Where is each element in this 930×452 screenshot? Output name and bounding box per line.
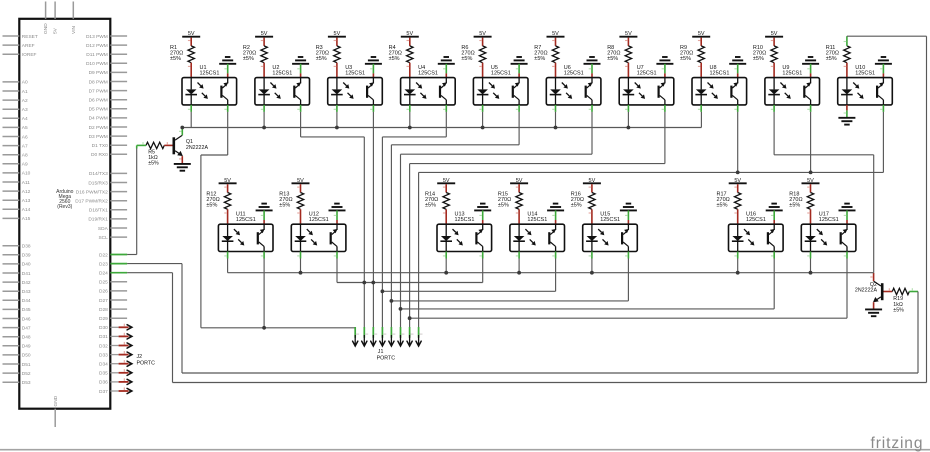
- wire net PC0: to J1 pin 1 (y=327.8): [201, 327, 355, 329]
- svg-text:125CS1: 125CS1: [710, 70, 730, 76]
- svg-text:D29: D29: [99, 316, 108, 322]
- svg-text:(Rev3): (Rev3): [57, 204, 72, 210]
- svg-text:125CS1: 125CS1: [491, 70, 511, 76]
- U1 pin legs (bottom): [190, 105, 192, 112]
- svg-text:A7: A7: [22, 143, 28, 149]
- svg-text:IOREF: IOREF: [22, 52, 37, 58]
- phototransistor inside U14: [548, 232, 550, 244]
- svg-text:D17 PWM/RX2: D17 PWM/RX2: [75, 199, 108, 205]
- pin 5V (top): [54, 2, 56, 19]
- wire 5V to R7: [555, 38, 557, 46]
- ground (U12 collector): [329, 209, 346, 211]
- svg-text:±5%: ±5%: [717, 203, 728, 209]
- U11 pin legs (bottom): [227, 252, 229, 259]
- svg-text:A12: A12: [22, 189, 31, 195]
- wire R11 to U10 anode (pin 1): [846, 63, 848, 78]
- wire 5V to R2: [263, 38, 265, 46]
- pin VIN (top): [72, 2, 74, 19]
- svg-text:D31: D31: [99, 334, 108, 340]
- J1 pin 4: [381, 327, 383, 338]
- junction U14 cathode on row-2 bus: [517, 271, 521, 275]
- wire U13 cathode drop: [445, 259, 447, 273]
- svg-text:D49: D49: [22, 344, 31, 350]
- svg-text:A5: A5: [22, 125, 28, 131]
- J2 pin 8 wire (D37): [119, 390, 129, 392]
- wire 5V to R13: [300, 184, 302, 192]
- svg-text:D43: D43: [22, 289, 31, 295]
- wire Q2 base to R19: [884, 291, 893, 293]
- svg-text:D48: D48: [22, 335, 31, 341]
- wire U3 emitter straight down to J1 pin 3: [372, 112, 374, 327]
- wire U11 cathode drop (bus start corner): [227, 259, 229, 273]
- resistor R3 270Ω: [334, 46, 340, 63]
- wire D23 to R19 / Q2 base (down right edge route): [127, 263, 182, 265]
- svg-text:±5%: ±5%: [498, 203, 509, 209]
- LED inside U8: [700, 78, 702, 90]
- junction U2 cathode on bus: [262, 126, 266, 130]
- J1 pin 5: [390, 327, 392, 338]
- wire D22 to R5 (net PA-drive 1): [137, 144, 146, 146]
- pin D51: [3, 363, 20, 365]
- wire bus: Q2 collector / U9 + U11-U17 LED cathodes (y=272.7): [228, 272, 874, 274]
- U12 pin legs (bottom): [300, 252, 302, 259]
- svg-text:125CS1: 125CS1: [564, 70, 584, 76]
- svg-text:125CS1: 125CS1: [637, 70, 657, 76]
- wire U4 cathode drop: [409, 112, 411, 128]
- wire R13 to U12 anode (pin 1): [300, 209, 302, 224]
- resistor R4 270Ω: [407, 46, 413, 63]
- pin AREF: [3, 44, 20, 46]
- ground (Q1 emitter): [174, 163, 191, 165]
- wire U15 emitter to J1 pin 5 (y=300.9): [627, 259, 629, 301]
- wire U12 cathode drop: [300, 259, 302, 273]
- phototransistor inside U16: [767, 232, 769, 244]
- pin A2: [3, 99, 20, 101]
- wire R15 to U14 anode (pin 1): [518, 209, 520, 224]
- svg-text:D42: D42: [22, 280, 31, 286]
- svg-text:±5%: ±5%: [148, 161, 159, 167]
- wire R1 to U1 anode (pin 1): [190, 63, 192, 78]
- svg-text:125CS1: 125CS1: [345, 70, 365, 76]
- svg-text:VIN: VIN: [71, 25, 77, 34]
- svg-text:5V: 5V: [53, 27, 59, 34]
- wire R16 to U15 anode (pin 1): [591, 209, 593, 224]
- svg-text:AREF: AREF: [22, 43, 35, 49]
- ground (U17 collector): [839, 209, 856, 211]
- U7 pin legs (bottom): [627, 105, 629, 112]
- svg-text:125CS1: 125CS1: [455, 217, 475, 223]
- wire 5V to R4: [409, 38, 411, 46]
- light arrows inside U13: [453, 229, 456, 232]
- U6 pin legs (bottom): [555, 105, 557, 112]
- junction Q1 collector on bus: [180, 126, 184, 130]
- svg-text:D11 PWM: D11 PWM: [86, 52, 108, 58]
- junction U12 cathode on row-2 bus: [299, 271, 303, 275]
- svg-text:D36: D36: [99, 380, 108, 386]
- phototransistor inside U13: [475, 232, 477, 244]
- svg-text:GND: GND: [53, 395, 59, 406]
- wire R5 to Q1 base: [164, 144, 172, 146]
- svg-text:SCL: SCL: [98, 235, 108, 241]
- svg-text:±5%: ±5%: [170, 56, 181, 62]
- wire R6 to U5 anode (pin 1): [482, 63, 484, 78]
- wire ground to U11 collector: [263, 210, 265, 220]
- junction U4 cathode on bus: [408, 126, 412, 130]
- svg-text:±5%: ±5%: [753, 56, 764, 62]
- svg-text:D25: D25: [99, 280, 108, 286]
- pin A6: [3, 136, 20, 138]
- pin A9: [3, 163, 20, 165]
- svg-text:±5%: ±5%: [279, 203, 290, 209]
- U2 pin legs (bottom): [263, 105, 265, 112]
- svg-text:125CS1: 125CS1: [272, 70, 292, 76]
- junction U3 cathode on bus: [335, 126, 339, 130]
- svg-text:fritzing: fritzing: [871, 435, 924, 452]
- svg-text:D23: D23: [99, 261, 108, 267]
- svg-text:D12 PWM: D12 PWM: [86, 43, 108, 49]
- LED inside U17: [810, 224, 812, 236]
- J1 pin 1: [354, 327, 356, 338]
- svg-text:A2: A2: [22, 98, 28, 104]
- wire U3 cathode drop: [336, 112, 338, 128]
- ground (U14 collector): [547, 209, 564, 211]
- Q2 collector leg: [874, 281, 881, 286]
- resistor R13 270Ω: [297, 193, 303, 210]
- wire U8 cathode drop (bus end): [700, 112, 702, 128]
- wire U2 emitter route to J1 pin 2: [300, 112, 302, 137]
- svg-text:D22: D22: [99, 252, 108, 258]
- wire 5V to R15: [518, 184, 520, 192]
- svg-text:D19/RX1: D19/RX1: [88, 217, 108, 223]
- svg-text:D52: D52: [22, 371, 31, 377]
- pin A10: [3, 172, 20, 174]
- J1 pin 7: [409, 327, 411, 338]
- U16 pin legs (bottom): [737, 252, 739, 259]
- svg-text:D53: D53: [22, 380, 31, 386]
- svg-text:D18/TX1: D18/TX1: [89, 208, 108, 214]
- LED inside U4: [409, 78, 411, 90]
- transistor Q1 2N2222A: [173, 137, 176, 154]
- wire R11 top to top-right rail: [846, 36, 848, 46]
- svg-text:A0: A0: [22, 80, 28, 86]
- phototransistor inside U2: [293, 86, 295, 98]
- junction U8 emitter: [736, 171, 740, 175]
- svg-text:±5%: ±5%: [534, 56, 545, 62]
- svg-text:D46: D46: [22, 316, 31, 322]
- wire U5 cathode drop: [482, 112, 484, 128]
- wire ground to U5 collector: [518, 64, 520, 74]
- wire R17 to U16 anode (pin 1): [737, 209, 739, 224]
- light arrows inside U3: [343, 83, 346, 86]
- svg-text:±5%: ±5%: [206, 203, 217, 209]
- light arrows inside U10: [853, 83, 856, 86]
- resistor R18 270Ω: [807, 193, 813, 210]
- Q1 collector leg: [175, 135, 182, 140]
- svg-text:±5%: ±5%: [425, 203, 436, 209]
- J2 pin 6 wire (D35): [119, 372, 129, 374]
- svg-text:A8: A8: [22, 153, 28, 159]
- pin RESET: [3, 35, 20, 37]
- U17 pin legs (bottom): [810, 252, 812, 259]
- wire U16 cathode drop: [737, 259, 739, 273]
- svg-text:125CS1: 125CS1: [600, 217, 620, 223]
- svg-text:D39: D39: [22, 253, 31, 259]
- phototransistor inside U5: [512, 86, 514, 98]
- svg-text:125CS1: 125CS1: [819, 217, 839, 223]
- svg-text:D41: D41: [22, 271, 31, 277]
- svg-text:±5%: ±5%: [680, 56, 691, 62]
- J2 pin 3 wire (D32): [119, 345, 129, 347]
- wire R2 to U2 anode (pin 1): [263, 63, 265, 78]
- pin D45: [3, 308, 20, 310]
- LED inside U15: [591, 224, 593, 236]
- pin D47: [3, 327, 20, 329]
- J1 pin 6: [400, 327, 402, 338]
- wire ground to U16 collector: [773, 210, 775, 220]
- resistor R11 270Ω: [844, 46, 850, 63]
- svg-text:D8 PWM: D8 PWM: [89, 79, 108, 85]
- svg-text:D35: D35: [99, 371, 108, 377]
- svg-text:J2: J2: [137, 354, 143, 360]
- svg-text:A15: A15: [22, 216, 31, 222]
- transistor Q2 2N2222A (mirrored): [881, 283, 884, 300]
- wire R19 to net of D23: [909, 291, 918, 293]
- pin A13: [3, 199, 20, 201]
- pin A5: [3, 126, 20, 128]
- resistor R2 270Ω: [261, 46, 267, 63]
- svg-text:D16 PWM/TX2: D16 PWM/TX2: [76, 189, 108, 195]
- wire 5V to R9: [700, 38, 702, 46]
- svg-text:D3 PWM: D3 PWM: [89, 134, 108, 140]
- wire ground to U15 collector: [627, 210, 629, 220]
- svg-text:D2 PWM: D2 PWM: [89, 125, 108, 131]
- junction on J1 pin3 vertical: [371, 281, 375, 285]
- wire 5V to R12: [227, 184, 229, 192]
- light arrows inside U5: [489, 83, 492, 86]
- svg-text:±5%: ±5%: [826, 56, 837, 62]
- resistor R12 270Ω: [224, 193, 230, 210]
- svg-text:±5%: ±5%: [389, 56, 400, 62]
- wire ground to U13 collector: [482, 210, 484, 220]
- junction U16 cathode on row-2 bus: [736, 271, 740, 275]
- pin A1: [3, 90, 20, 92]
- ground (U6 collector): [584, 63, 601, 65]
- LED inside U11: [227, 224, 229, 236]
- U9 pin legs (bottom): [773, 105, 775, 112]
- wire R10 to U9 anode (pin 1): [773, 63, 775, 78]
- U8 pin legs (bottom): [700, 105, 702, 112]
- wire U5 emitter route to J1 pin 5: [518, 112, 520, 145]
- svg-text:A11: A11: [22, 180, 31, 186]
- pin D50: [3, 354, 20, 356]
- wire U12 + U13 emitters to J1 pins 2,3 (y=282.5): [336, 259, 338, 283]
- light arrows inside U16: [744, 229, 747, 232]
- svg-text:GND: GND: [43, 23, 49, 34]
- U15 pin legs (bottom): [591, 252, 593, 259]
- phototransistor inside U1: [220, 86, 222, 98]
- phototransistor inside U7: [658, 86, 660, 98]
- wire 5V to R16: [591, 184, 593, 192]
- pin D42: [3, 281, 20, 283]
- U14 pin legs (bottom): [518, 252, 520, 259]
- resistor R9 270Ω: [698, 46, 704, 63]
- svg-text:D26: D26: [99, 289, 108, 295]
- phototransistor inside U9: [803, 86, 805, 98]
- resistor R8 270Ω: [625, 46, 631, 63]
- pin A8: [3, 154, 20, 156]
- wire R4 to U4 anode (pin 1): [409, 63, 411, 78]
- svg-text:PORTC: PORTC: [137, 361, 156, 367]
- wire U17 cathode drop: [810, 259, 812, 273]
- svg-text:A4: A4: [22, 116, 28, 122]
- svg-text:D37: D37: [99, 389, 108, 395]
- svg-text:125CS1: 125CS1: [236, 217, 256, 223]
- wire R7 to U6 anode (pin 1): [555, 63, 557, 78]
- svg-text:D47: D47: [22, 325, 31, 331]
- phototransistor inside U17: [840, 232, 842, 244]
- svg-text:D13 PWM: D13 PWM: [86, 34, 108, 40]
- pin D46: [3, 318, 20, 320]
- light arrows inside U1: [198, 83, 201, 86]
- U10 pin legs (bottom): [882, 105, 884, 112]
- svg-text:D27: D27: [99, 298, 108, 304]
- light arrows inside U8: [708, 83, 711, 86]
- resistor R7 270Ω: [552, 46, 558, 63]
- svg-text:D15/RX3: D15/RX3: [88, 180, 108, 186]
- resistor R10 270Ω: [771, 46, 777, 63]
- junction U5 cathode on bus: [481, 126, 485, 130]
- junction U13 cathode on row-2 bus: [444, 271, 448, 275]
- svg-text:J1: J1: [378, 349, 384, 355]
- pin D41: [3, 272, 20, 274]
- wire ground to U3 collector: [372, 64, 374, 74]
- light arrows inside U14: [525, 229, 528, 232]
- phototransistor inside U12: [330, 232, 332, 244]
- pin D43: [3, 290, 20, 292]
- light arrows inside U11: [234, 229, 237, 232]
- Arduino Mega 2560 (Rev3) board outline: [19, 19, 110, 409]
- pin D38: [3, 245, 20, 247]
- svg-text:125CS1: 125CS1: [855, 70, 875, 76]
- J1 pin 8: [418, 327, 420, 338]
- wire U9 cathode to row-2 bus (down, right, down): [773, 112, 775, 155]
- svg-text:D50: D50: [22, 353, 31, 359]
- ground (U13 collector): [474, 209, 491, 211]
- svg-text:D40: D40: [22, 262, 31, 268]
- wire U2 cathode drop: [263, 112, 265, 128]
- wire U4 emitter route to J1 pin 4: [445, 112, 447, 137]
- pin IOREF: [3, 53, 20, 55]
- svg-text:±5%: ±5%: [571, 203, 582, 209]
- wire 5V to R17: [737, 184, 739, 192]
- wire U6 emitter route to J1 pin 6: [591, 112, 593, 154]
- svg-text:D9 PWM: D9 PWM: [89, 70, 108, 76]
- light arrows inside U4: [416, 83, 419, 86]
- svg-text:D5 PWM: D5 PWM: [89, 107, 108, 113]
- light arrows inside U12: [307, 229, 310, 232]
- LED inside U12: [300, 224, 302, 236]
- resistor R17 270Ω: [735, 193, 741, 210]
- junction U15 cathode on row-2 bus: [590, 271, 594, 275]
- light arrows inside U2: [270, 83, 273, 86]
- wire 5V to R18: [810, 184, 812, 192]
- wire ground to U17 collector: [846, 210, 848, 220]
- wire U10 cathode to ground: [846, 105, 848, 111]
- LED inside U1: [190, 78, 192, 90]
- wire U14 emitter to J1 pin 4 (y=291.3): [555, 259, 557, 292]
- svg-text:D34: D34: [99, 362, 108, 368]
- svg-text:D14/TX3: D14/TX3: [89, 171, 108, 177]
- wire U7 emitter route to J1 pin 7: [664, 112, 666, 164]
- phototransistor inside U6: [585, 86, 587, 98]
- wire U11 emitter drop: [263, 259, 265, 328]
- light arrows inside U6: [562, 83, 565, 86]
- svg-text:SDA: SDA: [98, 226, 109, 232]
- LED inside U10: [846, 78, 848, 90]
- wire ground to U1 collector: [227, 64, 229, 74]
- svg-text:±5%: ±5%: [893, 308, 904, 314]
- wire U15 cathode drop: [591, 259, 593, 273]
- svg-text:A1: A1: [22, 89, 28, 95]
- junction U6 cathode on bus: [554, 126, 558, 130]
- pin A14: [3, 208, 20, 210]
- junction on J1 pin2 vertical: [362, 281, 366, 285]
- svg-text:D32: D32: [99, 343, 108, 349]
- svg-text:125CS1: 125CS1: [782, 70, 802, 76]
- svg-text:D44: D44: [22, 298, 31, 304]
- phototransistor inside U11: [257, 232, 259, 244]
- pin A7: [3, 145, 20, 147]
- ground (U9 collector): [802, 63, 819, 65]
- wire D24 to R11 (around right edge): [127, 272, 172, 274]
- resistor R1 270Ω: [188, 46, 194, 63]
- junction U17 cathode on row-2 bus: [809, 271, 813, 275]
- wire U17 emitter to J1 pin 7 (y=318.2): [846, 259, 848, 319]
- LED inside U7: [627, 78, 629, 90]
- wire 5V to R8: [627, 38, 629, 46]
- page footer line: [0, 449, 930, 451]
- wire R14 to U13 anode (pin 1): [445, 209, 447, 224]
- ground (U8 collector): [729, 63, 746, 65]
- wire ground to U10 collector: [882, 64, 884, 74]
- wire R3 to U3 anode (pin 1): [336, 63, 338, 78]
- J2 pin 7 wire (D36): [119, 381, 129, 383]
- svg-text:D7 PWM: D7 PWM: [89, 88, 108, 94]
- J1 pin 3: [372, 327, 374, 338]
- svg-text:PORTC: PORTC: [377, 356, 396, 362]
- J2 pin 4 wire (D33): [119, 354, 129, 356]
- svg-text:A14: A14: [22, 207, 31, 213]
- pin D39: [3, 254, 20, 256]
- ground (U3 collector): [365, 63, 382, 65]
- svg-text:D30: D30: [99, 325, 108, 331]
- svg-text:A9: A9: [22, 162, 28, 168]
- pin D48: [3, 336, 20, 338]
- U5 pin legs (bottom): [482, 105, 484, 112]
- LED inside U13: [445, 224, 447, 236]
- wire ground to U12 collector: [336, 210, 338, 220]
- LED inside U3: [336, 78, 338, 90]
- svg-text:A13: A13: [22, 198, 31, 204]
- svg-text:D33: D33: [99, 352, 108, 358]
- svg-text:2N2222A: 2N2222A: [855, 288, 878, 294]
- LED inside U5: [482, 78, 484, 90]
- ground (U1 collector): [219, 63, 236, 65]
- wire ground to U4 collector: [445, 64, 447, 74]
- svg-text:A3: A3: [22, 107, 28, 113]
- ground (U10 LED cathode): [838, 117, 855, 119]
- phototransistor inside U10: [876, 86, 878, 98]
